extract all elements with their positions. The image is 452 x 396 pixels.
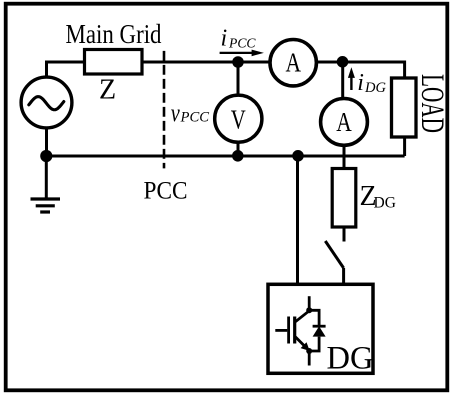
gate bar	[287, 317, 290, 344]
arrow iDG	[350, 76, 352, 90]
svg-text:i: i	[357, 70, 364, 96]
wire node to voltmeter	[237, 62, 240, 95]
load resistor	[392, 78, 417, 137]
wire source bottom to rail	[45, 128, 48, 156]
svg-text:Z: Z	[99, 75, 116, 106]
resistor Z	[85, 50, 143, 75]
node collector dot	[306, 307, 312, 313]
svg-text:PCC: PCC	[180, 110, 210, 126]
wire load bottom to rail	[403, 137, 406, 156]
svg-text:LOAD: LOAD	[414, 74, 450, 133]
arrow iPCC	[220, 52, 253, 54]
svg-text:A: A	[336, 107, 352, 137]
svg-text:Main Grid: Main Grid	[66, 19, 162, 49]
emitter lead angled with arrow	[295, 337, 306, 348]
ammeter A2	[321, 99, 368, 146]
wire rail node down to DG box	[296, 156, 299, 284]
collector lead angled	[295, 311, 309, 322]
node emitter dot	[306, 348, 312, 354]
wire to ground	[45, 156, 48, 198]
svg-text:i: i	[221, 26, 228, 52]
wire switch to DG box	[342, 268, 345, 284]
voltmeter V1	[215, 95, 262, 142]
switch S1	[325, 241, 343, 268]
wire voltmeter to rail	[237, 143, 240, 157]
diode D1 cathode bar	[313, 325, 326, 328]
emitter wire below	[308, 351, 311, 366]
body bar	[293, 317, 296, 344]
wire A2 to ZDG (crosses rail)	[343, 145, 346, 169]
IGBT Q1	[275, 296, 325, 365]
svg-text:DG: DG	[374, 194, 396, 211]
PCC dashed line	[163, 51, 166, 168]
node PCC top	[232, 56, 244, 68]
svg-text:v: v	[171, 100, 181, 127]
ground	[31, 199, 61, 212]
diode branch top	[309, 310, 319, 326]
node source bottom	[40, 150, 52, 162]
AC source G1	[21, 77, 72, 128]
svg-text:V: V	[231, 104, 246, 134]
svg-text:A: A	[285, 48, 301, 78]
diode branch bottom	[309, 337, 319, 351]
wire ZDG to switch	[343, 227, 346, 242]
collector wire	[308, 296, 311, 310]
DG box	[268, 284, 373, 373]
wire source top to resistor	[47, 62, 85, 78]
bottom rail wire	[47, 155, 405, 158]
wire A1 to load corner	[316, 62, 405, 78]
svg-text:DG: DG	[327, 340, 374, 376]
svg-text:DG: DG	[364, 80, 386, 96]
gate lead	[275, 329, 287, 332]
wire resistor to ammeter A1	[142, 61, 270, 64]
node voltmeter bottom	[232, 150, 244, 162]
node DG branch top	[337, 56, 349, 68]
svg-text:PCC: PCC	[144, 177, 188, 204]
wire node to ammeter A2	[341, 62, 344, 97]
resistor ZDG	[332, 169, 356, 228]
diode D1 triangle	[313, 326, 326, 336]
ammeter A1	[270, 40, 316, 86]
svg-text:PCC: PCC	[228, 36, 257, 51]
node DG branch bottom	[292, 150, 304, 162]
